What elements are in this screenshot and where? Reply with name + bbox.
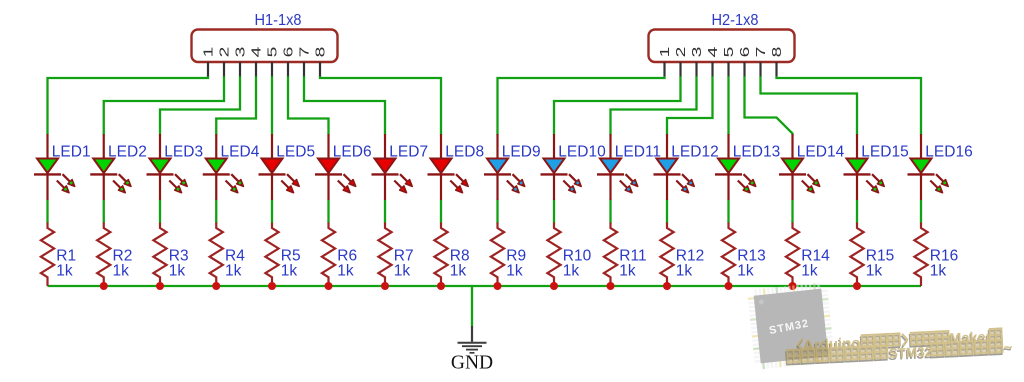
- svg-text:LED2: LED2: [108, 144, 147, 161]
- svg-text:LED15: LED15: [861, 144, 908, 161]
- svg-text:5: 5: [266, 47, 280, 58]
- svg-text:LED8: LED8: [445, 144, 484, 161]
- svg-text:1k: 1k: [930, 262, 947, 279]
- svg-text:1k: 1k: [563, 262, 580, 279]
- svg-text:LED11: LED11: [615, 144, 661, 161]
- svg-text:LED4: LED4: [221, 144, 260, 161]
- svg-text:8: 8: [770, 47, 784, 58]
- svg-text:4: 4: [706, 47, 720, 58]
- svg-text:7: 7: [298, 47, 312, 58]
- svg-text:1k: 1k: [801, 262, 818, 279]
- svg-text:1k: 1k: [113, 262, 130, 279]
- svg-text:LED14: LED14: [797, 144, 845, 161]
- svg-text:STM32: STM32: [888, 344, 932, 361]
- svg-text:1k: 1k: [506, 262, 523, 279]
- svg-text:8: 8: [314, 47, 328, 58]
- svg-text:1k: 1k: [56, 262, 73, 279]
- svg-text:LED9: LED9: [502, 144, 541, 161]
- svg-text:LED12: LED12: [671, 144, 718, 161]
- svg-text:1k: 1k: [225, 262, 242, 279]
- svg-text:LED5: LED5: [276, 144, 315, 161]
- svg-text:1k: 1k: [866, 262, 883, 279]
- svg-text:LED1: LED1: [52, 144, 91, 161]
- svg-text:4: 4: [250, 47, 264, 58]
- svg-text:LED3: LED3: [164, 144, 203, 161]
- svg-text:GND: GND: [451, 353, 493, 374]
- svg-text:1k: 1k: [337, 262, 354, 279]
- svg-text:LED7: LED7: [389, 144, 428, 161]
- svg-text:H1-1x8: H1-1x8: [255, 12, 302, 29]
- svg-text:1k: 1k: [676, 262, 693, 279]
- svg-text:1k: 1k: [281, 262, 298, 279]
- svg-text:1k: 1k: [394, 262, 411, 279]
- svg-text:7: 7: [754, 47, 768, 58]
- svg-text:1k: 1k: [619, 262, 636, 279]
- svg-text:5: 5: [722, 47, 736, 58]
- svg-text:1: 1: [202, 47, 216, 58]
- svg-text:2: 2: [218, 47, 232, 58]
- svg-text:LED6: LED6: [333, 144, 372, 161]
- svg-text:3: 3: [690, 47, 704, 58]
- svg-text:1k: 1k: [169, 262, 186, 279]
- svg-text:1k: 1k: [737, 262, 754, 279]
- svg-text:LED13: LED13: [733, 144, 780, 161]
- svg-text:2: 2: [674, 47, 688, 58]
- svg-text:H2-1x8: H2-1x8: [712, 12, 759, 29]
- svg-text:1: 1: [658, 47, 672, 58]
- svg-text:LED16: LED16: [925, 144, 972, 161]
- svg-text:6: 6: [738, 47, 752, 58]
- svg-text:3: 3: [234, 47, 248, 58]
- svg-text:1k: 1k: [450, 262, 467, 279]
- svg-text:~: ~: [1003, 339, 1013, 356]
- svg-text:6: 6: [282, 47, 296, 58]
